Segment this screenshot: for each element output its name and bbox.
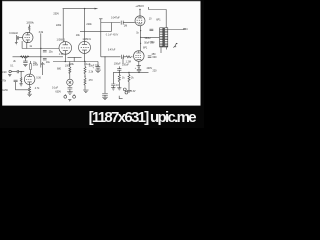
ground G9 psu side xyxy=(111,88,115,90)
background letterbox xyxy=(0,0,204,128)
wire OPT primary right drop xyxy=(165,10,167,28)
terminal J3 input xyxy=(9,70,11,72)
ground G14 under R16 xyxy=(127,90,131,92)
capacitor C9 spine bottom plates xyxy=(102,94,108,98)
triode V6 cathode xyxy=(27,82,31,85)
transformer OPT secondary winding xyxy=(165,28,168,47)
svg-text:LS0: LS0 xyxy=(2,71,7,74)
capacitor C15 input plates xyxy=(17,70,18,73)
triode V2 envelope xyxy=(59,42,72,55)
wire heater corner xyxy=(119,96,122,99)
svg-text:220k: 220k xyxy=(86,23,92,26)
svg-text:100uF: 100uF xyxy=(114,63,121,66)
svg-text:470k: 470k xyxy=(1,79,7,82)
pentode V5 envelope xyxy=(134,51,145,62)
capacitor C4 chain1 plates xyxy=(68,88,73,92)
wire grid feed V2 from node B xyxy=(22,48,59,50)
svg-text:220: 220 xyxy=(153,69,158,72)
svg-text:+250V: +250V xyxy=(135,4,144,8)
triode V3 grid dashes xyxy=(81,46,89,48)
svg-text:0.1uF 400V: 0.1uF 400V xyxy=(106,34,119,37)
ground G5 chain3 xyxy=(95,70,101,72)
svg-text:1/26N1: 1/26N1 xyxy=(57,38,66,41)
svg-text:560Ω: 560Ω xyxy=(145,37,151,40)
resistor R4 series zigzag on rail xyxy=(20,56,29,58)
capacitor C3 below rail xyxy=(23,57,27,63)
svg-text:0.36: 0.36 xyxy=(36,76,41,79)
triode V3 envelope xyxy=(79,41,91,53)
capacitor C7 V4 right plates xyxy=(150,29,154,31)
wire B+ to OPT xyxy=(149,9,167,11)
svg-text:0.022uF: 0.022uF xyxy=(9,32,18,35)
wire coupling line lower xyxy=(101,56,121,58)
svg-text:0.1uF: 0.1uF xyxy=(52,87,59,90)
node B junction dot upper xyxy=(40,48,41,49)
wire B+ rail top xyxy=(63,8,96,10)
wire C16 return to cathode xyxy=(16,82,30,90)
pentode V5 plate bar xyxy=(136,51,141,53)
node dot psu2 xyxy=(128,72,129,73)
resistor R9 chain2 upper xyxy=(84,62,86,77)
triode V6 envelope xyxy=(24,74,35,85)
svg-text:25u: 25u xyxy=(49,51,54,54)
ground G3 chain1 xyxy=(67,92,73,94)
triode V3 cathode xyxy=(82,50,87,53)
speaker SP symbol xyxy=(173,43,176,47)
wire feedback vertical riser xyxy=(111,23,113,32)
svg-text:0.047uF: 0.047uF xyxy=(111,16,120,19)
resistor R6 plate load V3 right xyxy=(84,9,86,42)
node arrow secondary xyxy=(183,28,186,30)
triode V1 plate bar xyxy=(26,32,30,35)
node dot mid xyxy=(140,37,141,38)
svg-text:6P1: 6P1 xyxy=(156,18,161,21)
node dots cathode chain xyxy=(140,30,141,31)
wire grid of V1 xyxy=(19,37,23,39)
pentode V4 grids xyxy=(137,20,143,22)
wire feedback horizontal y31.4 xyxy=(80,30,112,32)
wire grid line to C6 xyxy=(101,22,121,24)
node dot psu3 xyxy=(138,72,139,73)
ground G6 spine xyxy=(102,97,108,99)
PSU filter rail xyxy=(113,71,148,73)
wire V2 bottom to rail xyxy=(64,54,66,61)
capacitor C10 plates xyxy=(121,55,123,59)
triode V1 cathode xyxy=(26,40,30,43)
svg-text:450: 450 xyxy=(152,53,157,56)
svg-text:6P1: 6P1 xyxy=(143,46,148,49)
svg-text:100uF: 100uF xyxy=(122,63,129,66)
heater terminal H2 xyxy=(125,91,128,94)
resistor R15 psu left xyxy=(118,72,120,87)
wire secondary top out xyxy=(168,29,184,31)
node junction dot rail V2 xyxy=(65,61,66,62)
ground G11 V6 cathode xyxy=(27,94,31,96)
wire OPT left bottom lead xyxy=(161,47,166,53)
ground G7 V5 cathode xyxy=(137,66,141,68)
ground G8 psu left xyxy=(117,88,121,90)
triode V2 plate bar xyxy=(63,42,68,45)
resistor R7 chain1 upper xyxy=(69,62,71,80)
triode V1 grid dashes xyxy=(25,37,30,39)
sheet top border line xyxy=(2,0,200,2)
wire C6 to V4 grid xyxy=(123,22,135,24)
schematic drawing group xyxy=(1,1,201,101)
svg-text:630V: 630V xyxy=(55,91,61,94)
wire node B vertical x40.8 xyxy=(40,33,42,67)
svg-text:100k: 100k xyxy=(26,22,35,25)
wire node vertical x42.7 xyxy=(42,62,44,75)
triode V6 grid dashes xyxy=(26,79,31,81)
wire C15 to V6 grid xyxy=(19,71,25,73)
node dot psu1 xyxy=(119,72,120,73)
wire cathode link V2 V3 xyxy=(68,56,82,58)
node dot spine lower xyxy=(104,56,105,57)
resistor R5 plate load V2 left xyxy=(62,9,64,42)
wire V3 bottom to rail xyxy=(84,53,86,61)
resistor R13 grid stopper zigzag xyxy=(123,56,134,58)
resistor R19 grid leak V6 xyxy=(20,72,22,84)
svg-text:8Ω: 8Ω xyxy=(150,41,153,44)
node dot V4 plate rail xyxy=(139,9,140,10)
resistor R10 chain2 lower xyxy=(84,76,86,90)
triode V6 plate bar xyxy=(27,74,32,76)
node arrow B+ right xyxy=(95,8,99,10)
terminal J2 output right xyxy=(73,95,76,98)
svg-text:250V: 250V xyxy=(53,13,59,16)
lamp E1 chain1 circle element xyxy=(67,79,73,85)
node A input channel A vertical wire xyxy=(15,35,17,42)
svg-text:470: 470 xyxy=(89,79,94,82)
wire V4 plate to B+ xyxy=(139,10,141,16)
svg-text:0.47uF: 0.47uF xyxy=(108,48,116,51)
node dot rail at x84.6 xyxy=(84,8,85,9)
wire spine top tick xyxy=(99,18,102,20)
svg-text:2.2k: 2.2k xyxy=(89,70,94,73)
node B junction dot lower xyxy=(40,56,41,57)
triode V1 envelope xyxy=(23,32,33,42)
capacitor C12 psu plates xyxy=(117,66,121,72)
svg-text:6.3V: 6.3V xyxy=(131,90,136,93)
capacitor C2b plates lower xyxy=(43,58,47,60)
capacitor C16 plates small xyxy=(14,80,18,82)
pentode V4 envelope xyxy=(135,16,145,26)
wire V5 cathode down xyxy=(138,61,140,65)
svg-text:220k: 220k xyxy=(56,24,62,27)
wire cathode link drop to rail xyxy=(73,57,75,61)
svg-text:400V: 400V xyxy=(147,67,153,70)
wire ground spine lower xyxy=(104,57,106,94)
svg-text:1/2W: 1/2W xyxy=(2,89,8,92)
svg-text:100k: 100k xyxy=(33,63,39,66)
ground G2 xyxy=(23,64,27,66)
wire ground rail left section xyxy=(13,56,64,58)
wire B+ drop xyxy=(148,7,150,10)
transformer OPT core lines xyxy=(162,28,165,48)
svg-text:1.5k: 1.5k xyxy=(59,53,64,56)
wire plate of V1 up xyxy=(28,24,30,32)
node dot V6 grid xyxy=(21,71,22,72)
capacitor C1 plates xyxy=(17,36,18,39)
svg-text:1/26N1: 1/26N1 xyxy=(82,38,91,41)
svg-text:10u: 10u xyxy=(46,61,51,64)
capacitor C14 plates xyxy=(137,67,141,73)
wire terminal stubs xyxy=(65,94,74,95)
node dot chain2 xyxy=(84,76,85,77)
node junction dot rail V3 xyxy=(84,61,85,62)
svg-text:3.6k: 3.6k xyxy=(39,31,44,34)
wire input to C15 xyxy=(11,71,17,73)
wire ground rail mid section xyxy=(53,61,98,63)
resistor R18 plate load V6 xyxy=(30,61,32,74)
ground G1 channel A input xyxy=(15,43,18,45)
terminal J1 output left xyxy=(64,95,67,98)
svg-text:[1187x631] upic.me: [1187x631] upic.me xyxy=(89,109,197,126)
resistor R20 cathode V6 xyxy=(29,85,31,94)
ground G4 chain2 xyxy=(83,90,89,92)
capacitor C5 chain3 xyxy=(96,62,100,70)
pentode V5 cathode xyxy=(137,59,142,61)
svg-text:680: 680 xyxy=(57,67,62,70)
wire psu side vertical xyxy=(112,72,114,84)
capacitor C6 coupling top plates xyxy=(121,21,123,25)
wire V5 plate to OPT xyxy=(141,36,160,38)
capacitor C17 psu side plates xyxy=(111,84,115,88)
resistor R16 psu right xyxy=(128,72,130,90)
wire chain1 lower xyxy=(69,86,71,88)
wire V4 cathode chain down xyxy=(140,26,142,51)
transformer OPT primary winding xyxy=(160,28,163,47)
svg-text:4.7k: 4.7k xyxy=(35,87,40,90)
triode V2 grid dashes xyxy=(61,47,70,49)
pentode V4 cathode xyxy=(138,23,142,25)
resistor R18 body rectangle xyxy=(30,64,32,70)
ground G13 under jack xyxy=(8,74,11,76)
white schematic sheet xyxy=(2,1,200,106)
pentode V4 plate bar xyxy=(138,16,142,18)
svg-text:600: 600 xyxy=(153,56,158,59)
heater terminal H1 xyxy=(123,88,126,91)
wire long ground spine vertical upper xyxy=(100,19,102,57)
node dot low xyxy=(140,43,141,44)
svg-text:1M: 1M xyxy=(124,24,127,27)
lamp E1 cross marks xyxy=(69,81,71,83)
resistor R3 cathode wire xyxy=(22,41,27,49)
resistor R14 grid leak lower xyxy=(122,57,124,64)
pentode V5 grids xyxy=(135,55,141,57)
ground G10 V6 grid leak xyxy=(19,84,22,86)
triode V2 cathode xyxy=(63,51,68,55)
triode V3 plate bar xyxy=(82,42,87,45)
ground G12 between terminals xyxy=(68,99,71,101)
svg-text:8Ω: 8Ω xyxy=(185,28,188,31)
capacitor C2 bypass plates xyxy=(43,50,47,52)
capacitor C11 V5 right plates xyxy=(148,56,152,58)
